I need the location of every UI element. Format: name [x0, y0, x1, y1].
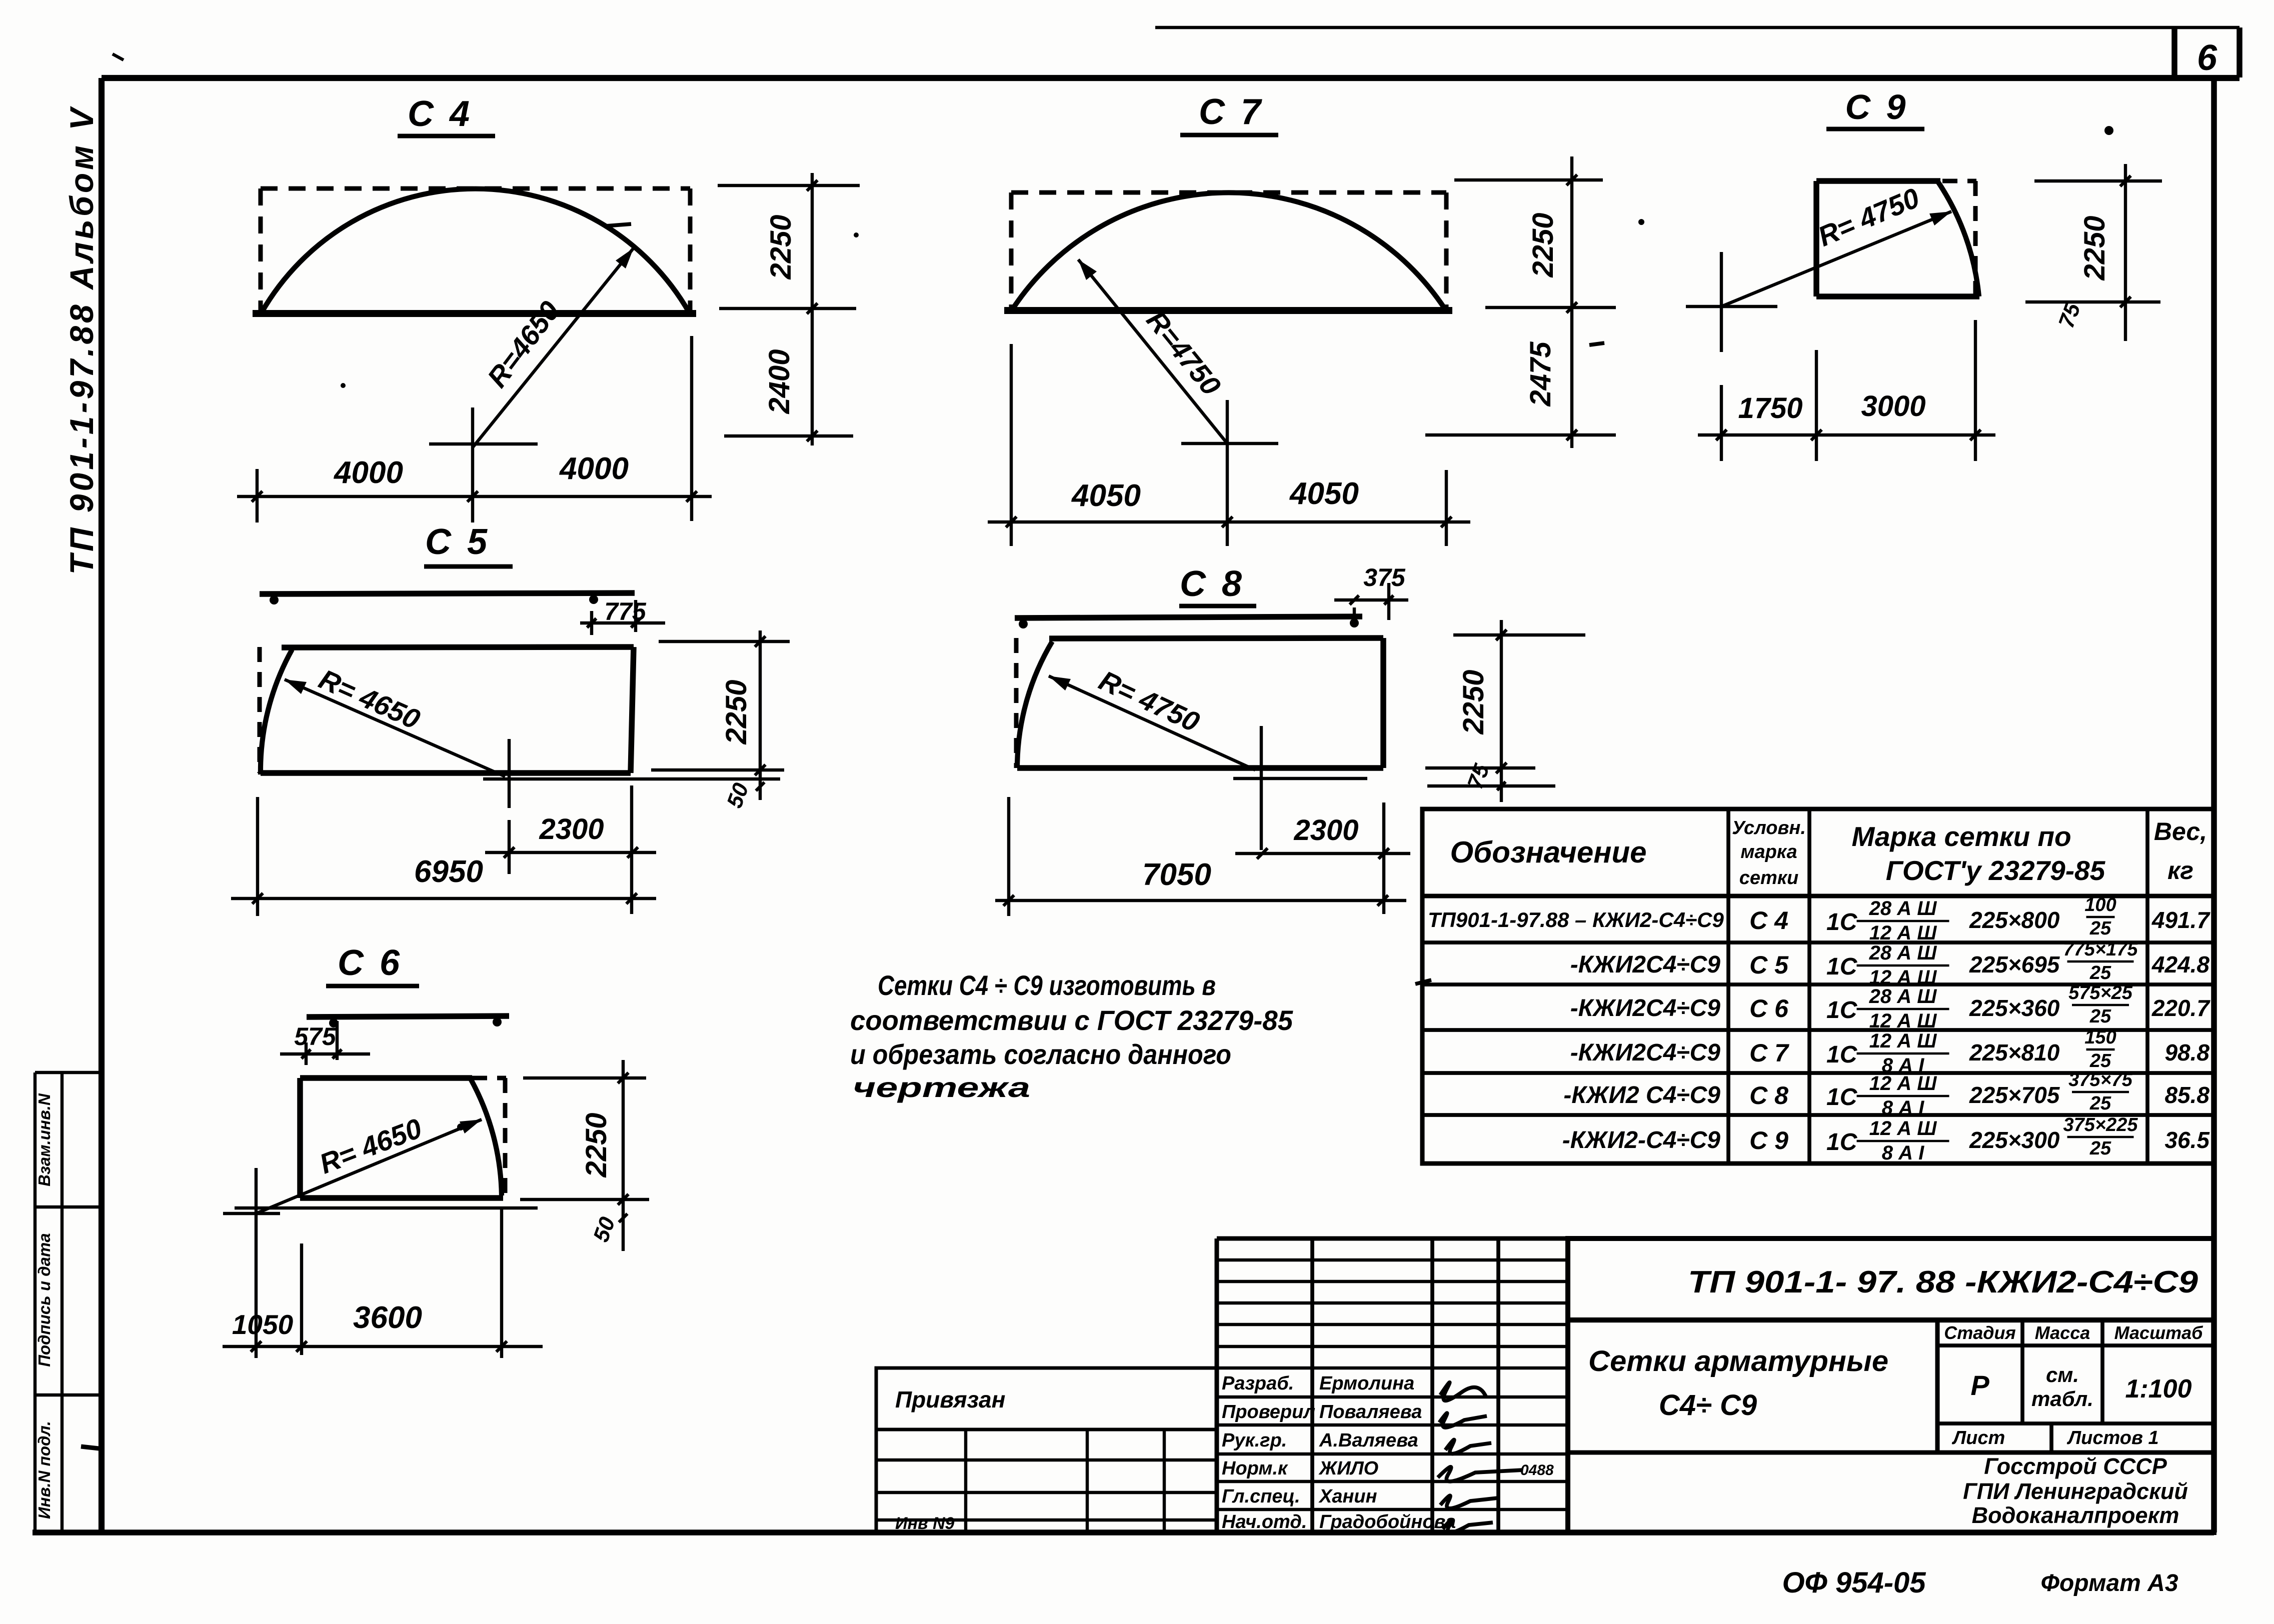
svg-text:2250: 2250 [1457, 669, 1490, 734]
svg-text:0488: 0488 [1520, 1462, 1554, 1478]
С9 mesh outline [1816, 178, 1940, 184]
С4 right tick lines [718, 184, 860, 187]
stray mark top left corner [113, 54, 124, 60]
svg-text:Ханин: Ханин [1318, 1486, 1377, 1507]
svg-text:ТП 901-1-97.88 Альбом V: ТП 901-1-97.88 Альбом V [63, 105, 100, 575]
С5 centre cross [508, 739, 511, 808]
svg-text:2250: 2250 [765, 214, 797, 279]
svg-text:Масштаб: Масштаб [2114, 1322, 2204, 1343]
svg-text:С 9: С 9 [1749, 1126, 1788, 1154]
С7 extension lines [1010, 344, 1013, 546]
С6 dashed blank edge [503, 1078, 508, 1198]
svg-text:2400: 2400 [763, 349, 796, 414]
С5 top bar [260, 593, 635, 594]
svg-text:36.5: 36.5 [2164, 1127, 2210, 1153]
svg-text:4050: 4050 [1071, 478, 1141, 513]
svg-text:225×810: 225×810 [1969, 1039, 2060, 1065]
С4 centre cross [429, 442, 538, 445]
svg-text:4000: 4000 [559, 451, 629, 486]
left lower grid [876, 1429, 1217, 1532]
svg-text:225×300: 225×300 [1969, 1127, 2060, 1153]
left sidebar column lines [34, 1072, 37, 1532]
С8 dim 2300 line [1235, 852, 1410, 855]
С5 cut arc [261, 649, 292, 774]
svg-text:2300: 2300 [1293, 814, 1358, 846]
svg-text:ОФ 954-05: ОФ 954-05 [1782, 1566, 1926, 1599]
С8 dim 7050 line [995, 899, 1406, 902]
svg-text:100: 100 [2084, 894, 2116, 915]
С6 ground line [235, 1206, 538, 1209]
svg-text:С 6: С 6 [1749, 994, 1789, 1022]
border frame left [99, 78, 105, 1532]
svg-text:Обозначение: Обозначение [1450, 835, 1646, 869]
С5 dim 2300 line [485, 851, 656, 854]
svg-text:225×695: 225×695 [1969, 951, 2060, 977]
С4 radius arrow R=4650 [473, 248, 634, 447]
С9 right dimension line [2124, 164, 2127, 341]
svg-text:1С: 1С [1826, 1041, 1858, 1068]
С7 title underline [1180, 133, 1278, 137]
svg-text:Листов 1: Листов 1 [2066, 1427, 2159, 1448]
svg-text:С 9: С 9 [1845, 87, 1909, 126]
svg-text:Привязан: Привязан [895, 1386, 1005, 1412]
svg-text:28 А Ш: 28 А Ш [1869, 942, 1937, 964]
svg-text:150: 150 [2084, 1027, 2116, 1048]
svg-text:-КЖИ2С4÷С9: -КЖИ2С4÷С9 [1570, 995, 1721, 1021]
svg-text:Лист: Лист [1951, 1427, 2005, 1448]
С8 extension lines [1007, 797, 1010, 916]
С8 mesh outline [1049, 638, 1383, 638]
С8 radius arrow R=4750 [1049, 676, 1255, 770]
С8 top bar end dots [1019, 619, 1028, 628]
svg-text:12 А Ш: 12 А Ш [1869, 1030, 1937, 1052]
svg-text:2250: 2250 [720, 679, 753, 744]
svg-text:ТП901-1-97.88 – КЖИ2-С4÷С9: ТП901-1-97.88 – КЖИ2-С4÷С9 [1428, 908, 1724, 931]
svg-text:ТП 901-1- 97. 88 -КЖИ2-С4÷С9: ТП 901-1- 97. 88 -КЖИ2-С4÷С9 [1688, 1265, 2198, 1299]
svg-text:С 7: С 7 [1749, 1039, 1789, 1067]
svg-text:ГОСТ'у 23279-85: ГОСТ'у 23279-85 [1886, 855, 2106, 886]
привязан box [876, 1368, 1217, 1429]
svg-text:ЖИЛО: ЖИЛО [1318, 1458, 1378, 1479]
С6 radius arrow R=4650 [256, 1119, 482, 1213]
svg-text:2250: 2250 [1527, 212, 1559, 277]
svg-text:98.8: 98.8 [2164, 1039, 2209, 1065]
С8 dashed blank edge [1014, 638, 1019, 768]
svg-text:1С: 1С [1826, 1129, 1858, 1155]
svg-text:775: 775 [604, 597, 647, 625]
С5 dashed blank edge [258, 647, 262, 773]
svg-text:С 8: С 8 [1180, 564, 1245, 604]
svg-text:25: 25 [2089, 1138, 2111, 1159]
svg-text:12 А Ш: 12 А Ш [1869, 1117, 1937, 1139]
svg-text:Сетки С4 ÷ С9 изготовить в: Сетки С4 ÷ С9 изготовить в [878, 969, 1216, 1001]
title block name/right divider [1935, 1320, 1940, 1452]
svg-text:1:100: 1:100 [2125, 1374, 2192, 1403]
svg-text:С 4: С 4 [408, 94, 473, 134]
svg-text:кг: кг [2167, 856, 2193, 884]
С7 mesh baseline [1004, 307, 1452, 314]
С5 radius arrow R=4650 [285, 679, 505, 776]
svg-text:Инв N9: Инв N9 [895, 1514, 955, 1533]
title block mid row line [1568, 1450, 2214, 1455]
stray speck right of C7 dim [1638, 219, 1644, 225]
svg-text:12 А Ш: 12 А Ш [1869, 922, 1937, 944]
С5 dim 775 line [580, 621, 665, 624]
svg-text:Формат А3: Формат А3 [2040, 1570, 2178, 1596]
С6 extension lines [255, 1241, 258, 1358]
С9 right tick lines [2034, 179, 2162, 182]
svg-text:Р: Р [1970, 1369, 1989, 1401]
svg-text:С 6: С 6 [338, 943, 403, 983]
svg-text:С 4: С 4 [1749, 906, 1788, 934]
svg-text:Подпись и дата: Подпись и дата [35, 1233, 54, 1367]
С9 stray dot [2104, 126, 2113, 135]
title block лист row [1937, 1421, 2214, 1425]
svg-text:Гл.спец.: Гл.спец. [1222, 1486, 1300, 1507]
С6 cut arc [470, 1078, 502, 1195]
svg-text:375×225: 375×225 [2063, 1114, 2138, 1135]
С8 cut arc [1017, 641, 1052, 766]
С4 bottom dimension line [237, 495, 712, 498]
С5 dim 6950 line [231, 897, 656, 900]
svg-text:424.8: 424.8 [2151, 951, 2210, 977]
svg-text:Градобойнова: Градобойнова [1319, 1511, 1456, 1532]
svg-text:-КЖИ2-С4÷С9: -КЖИ2-С4÷С9 [1562, 1127, 1721, 1153]
С7 dashed blank rectangle [1011, 190, 1446, 195]
svg-text:25: 25 [2089, 962, 2111, 983]
С8 title underline [1179, 604, 1256, 608]
С6 dim 575 line [280, 1052, 370, 1055]
svg-text:25: 25 [2089, 1006, 2111, 1027]
svg-text:2475: 2475 [1524, 341, 1557, 407]
С8 centre cross [1260, 726, 1263, 850]
svg-text:-КЖИ2С4÷С9: -КЖИ2С4÷С9 [1570, 951, 1721, 978]
svg-text:375: 375 [1363, 563, 1406, 591]
С6 right tick lines [523, 1076, 646, 1079]
svg-text:85.8: 85.8 [2164, 1082, 2209, 1108]
svg-text:775×175: 775×175 [2063, 939, 2138, 960]
svg-text:220.7: 220.7 [2151, 995, 2211, 1021]
svg-text:С 7: С 7 [1199, 92, 1264, 132]
svg-text:чертежа: чертежа [853, 1071, 1030, 1103]
С5 mesh outline [282, 647, 634, 647]
svg-text:марка: марка [1740, 841, 1797, 862]
mesh table row lines [1422, 940, 2214, 944]
border frame right [2211, 76, 2217, 1532]
svg-text:-КЖИ2 С4÷С9: -КЖИ2 С4÷С9 [1563, 1082, 1720, 1108]
svg-text:-КЖИ2С4÷С9: -КЖИ2С4÷С9 [1570, 1039, 1721, 1066]
svg-text:Марка сетки по: Марка сетки по [1851, 821, 2071, 852]
С6 mesh outline [300, 1075, 472, 1081]
mesh table header row line [1422, 894, 2214, 898]
С9 cut arc [1937, 181, 1979, 296]
svg-text:3600: 3600 [353, 1300, 422, 1335]
С4 dashed blank rectangle [261, 186, 690, 191]
svg-text:Стадия: Стадия [1944, 1322, 2015, 1343]
svg-text:1050: 1050 [232, 1309, 294, 1340]
sheet number box [2171, 27, 2177, 77]
С5 right dimension line [759, 630, 762, 800]
svg-text:575: 575 [294, 1022, 337, 1050]
С9 centre cross [1686, 305, 1777, 308]
svg-text:25: 25 [2089, 918, 2111, 939]
svg-text:1750: 1750 [1738, 392, 1802, 424]
С9 bottom dimension line [1698, 433, 1995, 436]
svg-text:Инв.N подл.: Инв.N подл. [35, 1421, 54, 1519]
svg-text:1С: 1С [1826, 953, 1858, 980]
С8 dim 375 line [1334, 598, 1408, 601]
С8 right dimension line [1500, 620, 1503, 802]
stray speck left of C5 [341, 383, 346, 388]
svg-text:Масса: Масса [2035, 1322, 2090, 1343]
title block стадия масса масштаб cells [2020, 1320, 2024, 1423]
title block designation row line [1568, 1317, 2214, 1322]
svg-text:Нач.отд.: Нач.отд. [1222, 1511, 1307, 1532]
stray mark bottom left [81, 1446, 104, 1449]
border frame top [102, 75, 2239, 81]
svg-text:8 А I: 8 А I [1882, 1142, 1924, 1164]
С6 centre cross [223, 1212, 280, 1215]
svg-text:1С: 1С [1826, 909, 1858, 935]
С6 right dimension line [622, 1060, 625, 1251]
С7 right dimension line [1570, 156, 1573, 448]
svg-text:Разраб.: Разраб. [1222, 1373, 1294, 1394]
С7 right tick lines [1454, 178, 1603, 181]
С6 top bar end dots [329, 1018, 338, 1027]
svg-text:табл.: табл. [2031, 1387, 2093, 1410]
svg-text:см.: см. [2046, 1363, 2079, 1386]
С8 top bar [1015, 616, 1362, 618]
svg-text:Сетки арматурные: Сетки арматурные [1588, 1345, 1888, 1377]
svg-text:4050: 4050 [1289, 476, 1359, 511]
svg-text:12 А Ш: 12 А Ш [1869, 1072, 1937, 1094]
С6 top bar [307, 1016, 509, 1017]
svg-text:Взам.инв.N: Взам.инв.N [35, 1093, 54, 1186]
С4 stray dash [606, 224, 631, 226]
svg-text:28 А Ш: 28 А Ш [1869, 897, 1937, 919]
С4 right dimension line [811, 173, 814, 445]
stray dash below 2475 label [1589, 343, 1604, 345]
С7 bottom dimension line [988, 520, 1470, 523]
svg-text:4000: 4000 [333, 455, 403, 490]
С9 extension lines [1720, 385, 1723, 461]
svg-text:Поваляева: Поваляева [1319, 1401, 1422, 1422]
svg-text:Ермолина: Ермолина [1319, 1373, 1414, 1394]
С7 stray dot [854, 232, 859, 237]
top thin rule [1155, 26, 2239, 29]
signatures scribbles [1440, 1382, 1486, 1401]
С4 title underline [398, 134, 495, 138]
svg-text:С 5: С 5 [1749, 951, 1789, 979]
svg-text:2300: 2300 [539, 813, 604, 845]
svg-text:Вес,: Вес, [2154, 817, 2207, 845]
border frame bottom [33, 1529, 2214, 1535]
svg-text:соответствии с ГОСТ 23279-85: соответствии с ГОСТ 23279-85 [850, 1004, 1293, 1036]
С9 dashed blank edge [1973, 181, 1978, 296]
С5 ground line [483, 777, 780, 780]
svg-text:225×360: 225×360 [1969, 995, 2060, 1021]
svg-text:575×25: 575×25 [2068, 982, 2133, 1003]
revision grid rows [1217, 1258, 1568, 1261]
signature rows [1217, 1395, 1568, 1398]
svg-text:Рук.гр.: Рук.гр. [1222, 1430, 1287, 1451]
svg-text:8 А I: 8 А I [1882, 1097, 1924, 1119]
С7 centre cross [1181, 442, 1278, 445]
svg-text:сетки: сетки [1739, 867, 1799, 888]
С8 ground line [1233, 777, 1367, 780]
svg-text:3000: 3000 [1861, 390, 1925, 422]
svg-text:7050: 7050 [1142, 857, 1211, 892]
svg-text:С4÷ С9: С4÷ С9 [1659, 1389, 1757, 1421]
С5 title underline [424, 564, 513, 569]
С6 bottom dimension line [223, 1345, 543, 1348]
С7 radius arrow R=4750 [1078, 259, 1227, 443]
svg-text:491.7: 491.7 [2151, 907, 2211, 933]
С8 right tick lines [1453, 633, 1585, 636]
mesh table outer border [1422, 809, 2214, 1163]
svg-text:6950: 6950 [414, 854, 483, 889]
svg-text:225×800: 225×800 [1969, 907, 2060, 933]
svg-text:Условн.: Условн. [1732, 817, 1806, 838]
svg-text:и обрезать согласно данного: и обрезать согласно данного [850, 1038, 1231, 1070]
svg-text:С 5: С 5 [425, 522, 490, 562]
signature grid columns [1215, 1238, 1219, 1532]
svg-text:2250: 2250 [2078, 215, 2111, 280]
svg-text:Проверил: Проверил [1222, 1401, 1315, 1422]
svg-text:С 8: С 8 [1749, 1081, 1788, 1109]
svg-text:Норм.к: Норм.к [1222, 1458, 1288, 1479]
С9 radius arrow R=4750 [1721, 211, 1951, 306]
svg-text:28 А Ш: 28 А Ш [1869, 985, 1937, 1007]
С9 title underline [1826, 127, 1924, 131]
svg-text:Водоканалпроект: Водоканалпроект [1972, 1502, 2179, 1528]
С6 title underline [326, 984, 419, 988]
stray dash right of note [1415, 980, 1431, 984]
С5 extension lines [256, 797, 259, 916]
svg-text:225×705: 225×705 [1969, 1082, 2060, 1108]
svg-text:25: 25 [2089, 1093, 2111, 1114]
svg-text:375×75: 375×75 [2068, 1069, 2133, 1090]
mesh table column lines [1726, 809, 1730, 1163]
svg-text:6: 6 [2197, 38, 2217, 78]
svg-text:Госстрой СССР: Госстрой СССР [1984, 1453, 2167, 1479]
svg-text:1С: 1С [1826, 1084, 1858, 1110]
С4 extension lines [256, 469, 259, 522]
title block outer border [1568, 1238, 2214, 1532]
С7 cut arc [1012, 192, 1445, 309]
С4 cut arc [262, 189, 689, 312]
svg-text:ГПИ Ленинградский: ГПИ Ленинградский [1963, 1478, 2188, 1504]
svg-text:А.Валяева: А.Валяева [1319, 1430, 1418, 1451]
svg-text:1С: 1С [1826, 997, 1858, 1023]
С5 top bar end dots [270, 595, 279, 604]
svg-text:2250: 2250 [580, 1112, 613, 1177]
С5 right tick lines [659, 640, 790, 643]
С4 mesh baseline [253, 310, 696, 317]
svg-text:25: 25 [2089, 1050, 2111, 1071]
svg-text:12 А Ш: 12 А Ш [1869, 1010, 1937, 1032]
